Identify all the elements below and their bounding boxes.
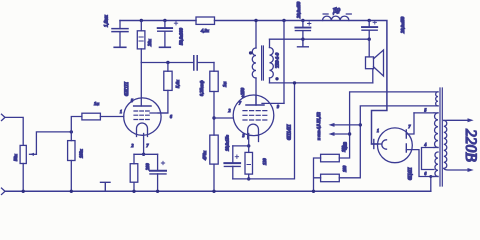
wire HV bottom to rail <box>430 177 432 192</box>
ground (C6 chassis) <box>298 39 309 47</box>
wire rectifier anode 1 to HV <box>414 112 434 114</box>
svg-text:200: 200 <box>145 163 150 170</box>
svg-text:100: 100 <box>342 165 347 172</box>
svg-text:6Ж1П: 6Ж1П <box>124 82 130 96</box>
svg-text:50к: 50к <box>13 153 18 161</box>
node V2 grid <box>212 116 215 119</box>
ground (C1 chassis bar) <box>114 46 126 48</box>
ground (chassis tap on rail) <box>101 182 111 191</box>
capacitor C4 (cathode bypass) <box>150 154 166 191</box>
node rail-R7 <box>212 190 215 193</box>
svg-text:1: 1 <box>377 129 379 133</box>
node T1 secondary phase dot <box>275 77 278 80</box>
wire heater line 1 <box>339 92 438 158</box>
node heater1-arrow2 <box>348 132 351 135</box>
transformer T2 power <box>431 88 468 186</box>
svg-text:1,0мк: 1,0мк <box>105 15 110 27</box>
node bus-C7 <box>368 19 371 22</box>
node feedback tap <box>293 81 296 84</box>
resistor R1 (grid stopper 1м) <box>71 113 100 132</box>
wire 220V arrow top <box>468 118 474 122</box>
resistor R11 (hum balance 100) <box>321 154 340 162</box>
node rail-R4 <box>132 190 135 193</box>
wire feedback (cathode return to secondary) <box>233 83 295 179</box>
resistor R6 (grid leak upper 1м) <box>210 63 218 136</box>
svg-text:2: 2 <box>132 144 134 148</box>
node anode-R3 <box>166 61 169 64</box>
svg-text:6: 6 <box>425 172 427 176</box>
wire B+ bus <box>120 21 387 145</box>
tube V1 6Ж1П <box>100 63 167 155</box>
node bus-C2 <box>163 19 166 22</box>
capacitor C5 (cathode bypass 10,0х15в) <box>224 146 240 179</box>
inductor L1 choke Др <box>323 14 352 21</box>
wire cathode net <box>134 153 158 155</box>
resistor R2 (anode load 20к) <box>137 21 145 63</box>
capacitor C6 (filter 20,0х450) <box>295 21 311 40</box>
tube V3 6Ц4П <box>372 113 435 177</box>
svg-text:100к: 100к <box>79 148 84 158</box>
resistor R9 (grid leak 100к) <box>68 132 75 191</box>
wire ground rail <box>5 190 431 192</box>
input terminal X2 <box>2 188 6 194</box>
wire heater line 2 <box>339 106 438 178</box>
wire V2 grid <box>214 117 233 119</box>
node bus-screen V2 <box>282 19 285 22</box>
resistor R4 (cathode 200) <box>130 154 138 191</box>
ground (C2 chassis bar) <box>160 46 171 48</box>
wire heater arrow 1 <box>333 124 360 126</box>
capacitor C7 (filter 20,0х450) <box>362 21 377 40</box>
transformer T1 ТВЗ-1-9 output <box>252 21 273 106</box>
resistor R5 (bus dropper 4,3к) <box>196 17 215 24</box>
wire V1 anode node <box>141 62 214 64</box>
node bus-R2 <box>140 19 143 22</box>
node rail-hum <box>312 190 315 193</box>
svg-text:6Ц4П: 6Ц4П <box>409 167 414 180</box>
svg-text:5: 5 <box>425 109 427 113</box>
resistor R12 (hum balance 100) <box>321 174 340 182</box>
wire heater arrow 2 <box>333 133 350 135</box>
svg-text:+250: +250 <box>240 87 245 98</box>
wire V2 cathode <box>233 145 249 147</box>
svg-text:5: 5 <box>131 99 133 103</box>
node cathode-R10 bottom <box>247 177 250 180</box>
node V1 cathode <box>142 153 145 156</box>
node rail-pot <box>22 190 25 193</box>
node grid junction V1 <box>70 130 73 133</box>
wire speaker to secondary <box>270 82 373 84</box>
resistor R7 (grid leak lower 470к) <box>210 135 218 191</box>
node V2 cathode <box>247 144 250 147</box>
svg-text:6П14П: 6П14П <box>286 124 293 140</box>
node rail-R9 <box>70 190 73 193</box>
node bus-C6 <box>301 19 304 22</box>
svg-text:20к: 20к <box>147 38 152 46</box>
node heater2-arrow1 <box>359 123 362 126</box>
svg-text:2: 2 <box>229 109 231 113</box>
node C7 ground <box>368 38 371 41</box>
node anode2-rail <box>429 175 432 178</box>
wire screen V2 <box>283 21 285 104</box>
node rail-C4 <box>156 190 159 193</box>
node bus-T1 primary <box>254 19 257 22</box>
capacitor C3 (coupling 0,1-1мкф) <box>194 56 197 70</box>
speaker B1 <box>366 39 384 83</box>
tube V2 6П14П <box>233 95 284 146</box>
svg-text:ТВЗ-1-9: ТВЗ-1-9 <box>275 52 280 68</box>
svg-text:3: 3 <box>243 134 245 138</box>
wire HV mid taps <box>422 148 435 170</box>
svg-text:1м: 1м <box>94 101 99 106</box>
resistor R3 (screen 5,6к) <box>158 63 172 114</box>
svg-text:4: 4 <box>425 143 427 147</box>
wire input <box>5 117 23 145</box>
input terminal X1 <box>2 114 6 120</box>
node C6 ground <box>301 38 304 41</box>
svg-text:470к: 470к <box>202 150 207 160</box>
svg-text:1: 1 <box>120 110 122 114</box>
potentiometer R8 (50к) <box>20 132 71 191</box>
wire ground link (secondary top / filter commons) <box>270 38 369 40</box>
capacitor C2 (decoupling 50,0x300) <box>158 21 178 48</box>
svg-text:9: 9 <box>277 105 279 109</box>
svg-text:6: 6 <box>170 115 172 119</box>
svg-text:100: 100 <box>341 145 346 152</box>
wire hum balance common <box>314 158 321 191</box>
resistor R10 (cathode 130) <box>245 146 253 179</box>
svg-text:130: 130 <box>262 158 267 165</box>
node T1 primary phase dot <box>249 51 252 54</box>
svg-text:220В: 220В <box>462 129 479 162</box>
wire 220V arrow bottom <box>468 168 474 172</box>
svg-text:1м: 1м <box>222 82 227 87</box>
capacitor C1 (input filter 1,0мк) <box>112 21 128 48</box>
